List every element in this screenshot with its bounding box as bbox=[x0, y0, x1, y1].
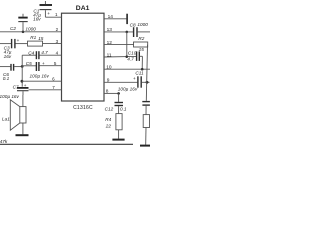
svg-text:22: 22 bbox=[105, 123, 112, 128]
svg-text:100µ 16v: 100µ 16v bbox=[0, 94, 20, 99]
wire C4 to pin4 bbox=[39, 54, 61, 56]
resistor R4 bbox=[116, 114, 122, 130]
wire speaker to ground bbox=[22, 123, 24, 134]
right rail wire bbox=[146, 45, 147, 101]
svg-text:+: + bbox=[133, 76, 136, 81]
svg-text:8: 8 bbox=[106, 89, 109, 95]
ground R4 bbox=[112, 139, 124, 141]
wire input to C6 bbox=[0, 66, 11, 68]
svg-text:C4: C4 bbox=[28, 50, 34, 55]
node junction pin10/C10 bbox=[141, 68, 144, 71]
svg-text:+: + bbox=[17, 38, 20, 43]
wire C8 node down bbox=[126, 32, 128, 57]
wire rail to C4 bbox=[22, 54, 36, 56]
capacitor C4 bbox=[36, 51, 39, 59]
svg-text:C7: C7 bbox=[13, 84, 19, 89]
wire input to pin2 bbox=[0, 31, 62, 33]
wire input to C3 bbox=[0, 43, 11, 45]
node junction rail/pin6 bbox=[21, 80, 24, 83]
ground right bbox=[140, 145, 150, 147]
wire C10 to branch bbox=[140, 55, 143, 57]
capacitor C11 bbox=[138, 76, 141, 87]
svg-text:13: 13 bbox=[107, 27, 113, 33]
wire C5 to pin5 bbox=[39, 65, 61, 67]
svg-text:15: 15 bbox=[139, 47, 145, 52]
svg-text:DA1: DA1 bbox=[76, 5, 90, 12]
svg-text:15: 15 bbox=[38, 36, 44, 41]
capacitor plate at pin14 bbox=[126, 14, 128, 24]
capacitor C5 bbox=[36, 62, 39, 71]
wire pin6 bbox=[22, 80, 62, 82]
node junction C2/pin2 bbox=[22, 31, 25, 34]
capacitor C3 bbox=[12, 39, 15, 48]
wire pin12 to R2 bbox=[104, 44, 134, 46]
capacitor C13 bbox=[142, 102, 150, 115]
svg-text:R4: R4 bbox=[105, 117, 111, 122]
wire pin14 bbox=[104, 18, 126, 20]
node junction pin11/C8 branch bbox=[126, 55, 129, 58]
svg-text:1000: 1000 bbox=[25, 26, 36, 31]
wire C8 to edge bbox=[138, 31, 150, 33]
svg-text:+: + bbox=[42, 61, 45, 66]
svg-text:14: 14 bbox=[108, 14, 114, 20]
node junction C11/right rail bbox=[146, 81, 149, 84]
wire pin1 bbox=[45, 16, 61, 18]
svg-text:16v: 16v bbox=[33, 17, 41, 22]
svg-text:C11: C11 bbox=[135, 71, 144, 76]
svg-text:R2: R2 bbox=[138, 36, 144, 41]
svg-text:C12: C12 bbox=[105, 107, 114, 112]
capacitor C10 bbox=[137, 51, 140, 61]
svg-text:C8: C8 bbox=[130, 23, 136, 28]
svg-text:4.7: 4.7 bbox=[127, 56, 134, 61]
resistor R5 bbox=[143, 115, 149, 128]
wire C10 branch down bbox=[141, 56, 143, 69]
svg-text:100µ 16v: 100µ 16v bbox=[30, 74, 50, 79]
svg-text:100µ 16v: 100µ 16v bbox=[118, 86, 138, 91]
node junction rail/pin5 bbox=[21, 65, 24, 68]
ground speaker bbox=[16, 134, 29, 136]
svg-text:1000: 1000 bbox=[137, 22, 148, 27]
svg-text:47k: 47k bbox=[0, 139, 8, 144]
svg-text:C10: C10 bbox=[128, 50, 137, 55]
wire pin7 bbox=[29, 89, 62, 91]
bottom rail wire bbox=[0, 143, 133, 145]
svg-text:9: 9 bbox=[107, 77, 110, 83]
wire R5 to ground bbox=[145, 128, 147, 145]
wire pin13 bbox=[104, 31, 133, 33]
wire rail to C5 bbox=[22, 65, 36, 67]
wire R1 to pin3 bbox=[43, 43, 62, 45]
wire C3 to R1 bbox=[16, 43, 28, 45]
svg-text:10: 10 bbox=[106, 64, 112, 70]
op-amp/IC DA1 box bbox=[62, 13, 105, 101]
svg-text:4.7: 4.7 bbox=[41, 50, 48, 55]
svg-text:+: + bbox=[24, 83, 27, 88]
capacitor C12 bbox=[115, 103, 124, 114]
svg-text:12: 12 bbox=[107, 40, 113, 46]
capacitor C8 bbox=[134, 27, 137, 37]
resistor R2 bbox=[134, 42, 148, 47]
wire pin11 bbox=[104, 55, 136, 58]
wire pin8 node down bbox=[118, 93, 120, 102]
node junction pin13/C8 bbox=[126, 31, 129, 34]
svg-text:+: + bbox=[47, 11, 50, 16]
capacitor C7 bbox=[17, 88, 29, 107]
capacitor C1 bbox=[40, 1, 53, 17]
svg-text:C5: C5 bbox=[26, 61, 32, 66]
vertical rail left bbox=[21, 55, 23, 86]
svg-text:La1: La1 bbox=[2, 116, 10, 121]
svg-text:C2: C2 bbox=[10, 26, 16, 31]
wire C11 to rail bbox=[142, 81, 150, 83]
node junction pin8/C12 bbox=[117, 92, 120, 95]
wire C6 to rail bbox=[14, 66, 22, 68]
wire pin8 bbox=[104, 92, 120, 94]
resistor R1 bbox=[28, 41, 43, 46]
wire pin9 bbox=[104, 81, 137, 83]
svg-text:R1: R1 bbox=[30, 35, 36, 40]
svg-text:0.1: 0.1 bbox=[120, 107, 127, 112]
wire R4 to ground bbox=[118, 130, 120, 139]
wire pin10 bbox=[104, 68, 150, 70]
svg-text:11: 11 bbox=[107, 52, 112, 58]
loudspeaker La1 bbox=[10, 100, 26, 131]
capacitor C6 bbox=[11, 64, 14, 71]
svg-text:C1316C: C1316C bbox=[73, 105, 93, 111]
svg-text:0.1: 0.1 bbox=[3, 76, 10, 81]
capacitor C2 bbox=[18, 14, 27, 32]
svg-text:16v: 16v bbox=[4, 54, 12, 59]
